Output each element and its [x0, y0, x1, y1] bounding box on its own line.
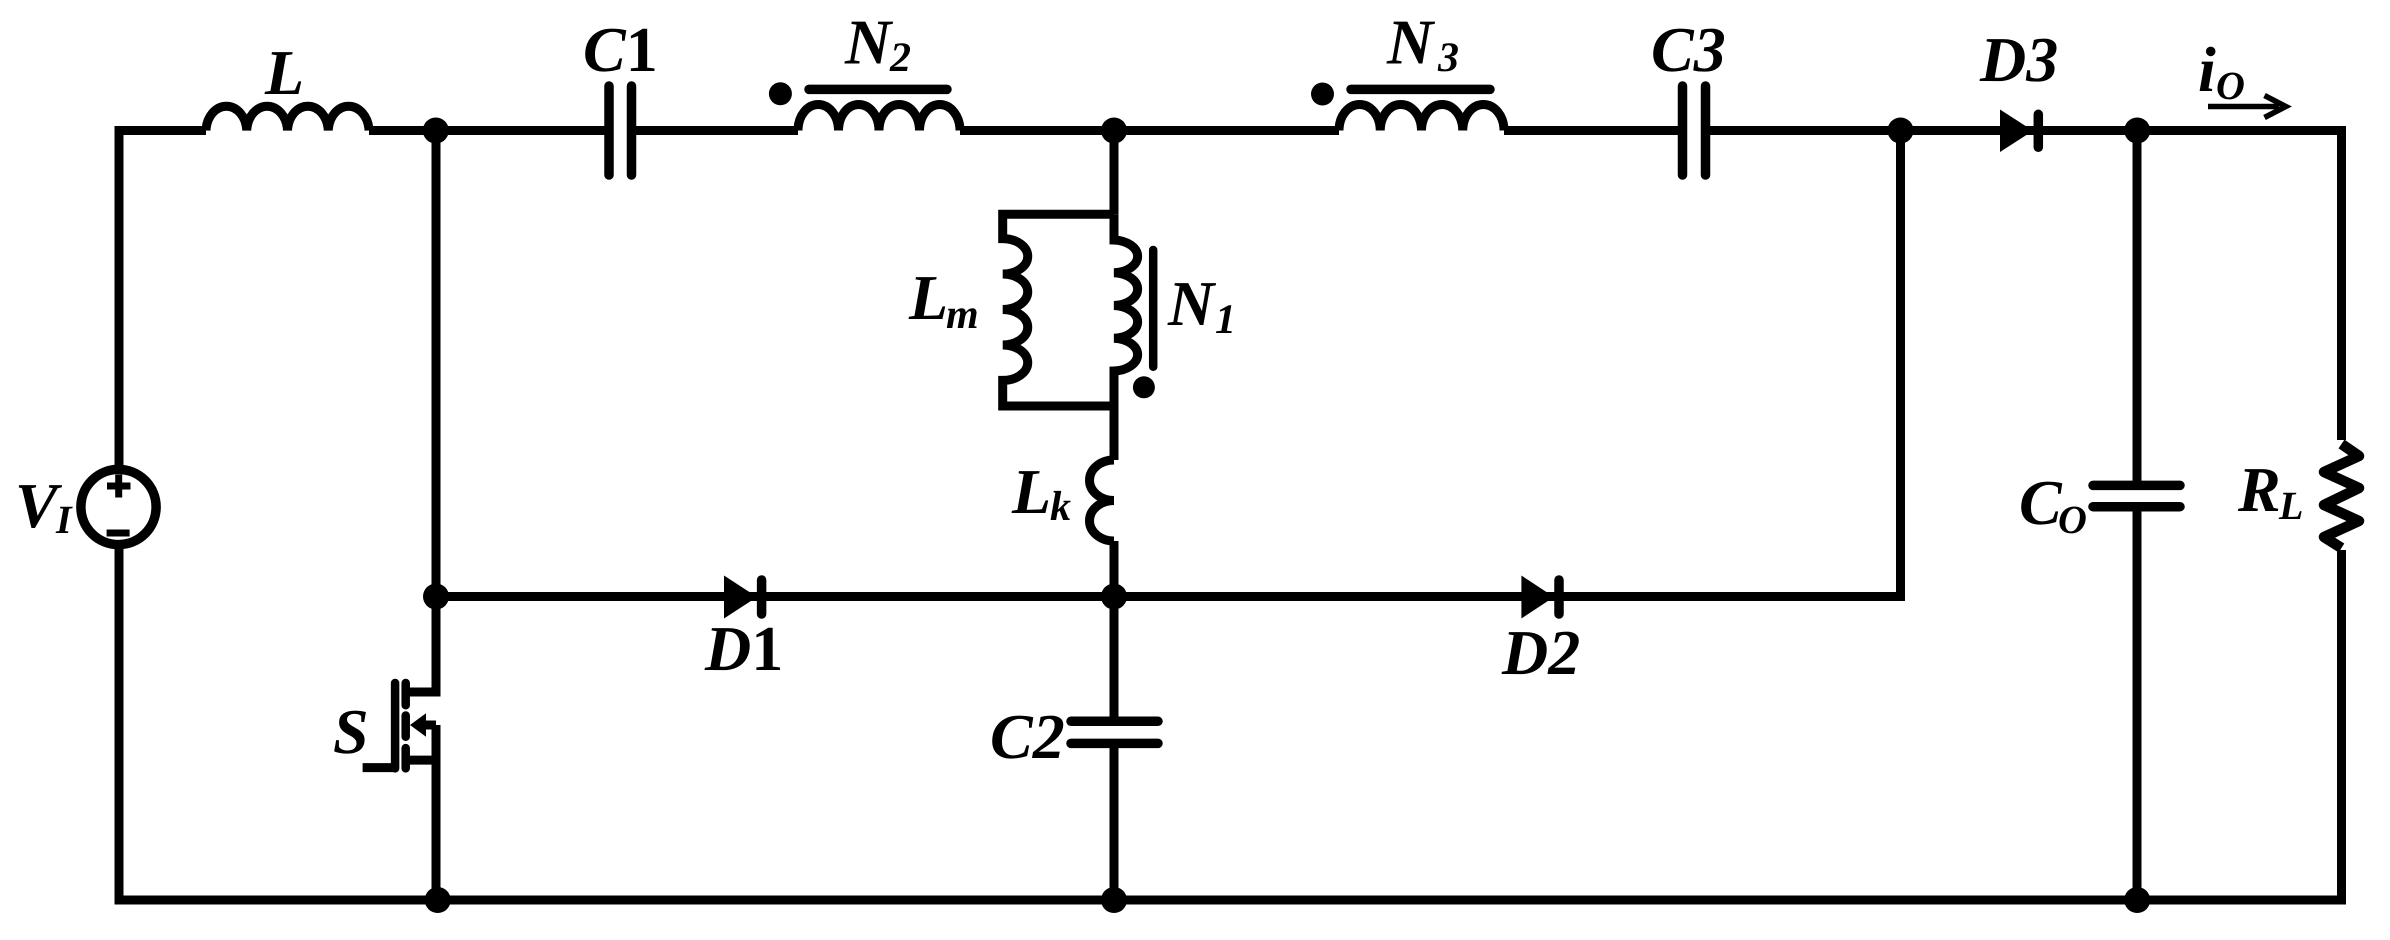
node F (S source / bottom): [425, 887, 451, 913]
transistor S body arrow: [410, 713, 426, 737]
winding N1: [1114, 214, 1138, 406]
wire output node down to CO: [2133, 131, 2142, 482]
wire middle rail (D1-D2 row) + riser up to node B: [436, 131, 1901, 597]
arrow iO: [2208, 96, 2286, 118]
wire CO to bottom rail: [2133, 511, 2142, 900]
svg-text:N: N: [1386, 7, 1436, 78]
N2 core bar: [809, 85, 947, 95]
svg-text:N: N: [1167, 268, 1217, 339]
transistor S source stub: [406, 756, 436, 765]
svg-text:I: I: [55, 497, 73, 542]
svg-text:C: C: [2019, 467, 2063, 538]
node C (output node): [2124, 118, 2150, 144]
capacitor CO: [2093, 485, 2180, 506]
node A (top center junction): [1101, 118, 1127, 144]
winding N2: [798, 105, 960, 131]
capacitor C3: [1683, 86, 1706, 175]
svg-text:L: L: [264, 37, 304, 108]
svg-text:D3: D3: [1979, 24, 2058, 95]
wire C2 to bottom rail: [1110, 748, 1119, 900]
wire top rail: N3 to C3: [1504, 126, 1678, 135]
wire vertical from node A1 down to switch: [432, 131, 441, 597]
svg-text:3: 3: [1437, 35, 1459, 81]
node E (Lk / C2 junction): [1101, 584, 1127, 610]
svg-text:D1: D1: [704, 613, 783, 684]
svg-text:C1: C1: [583, 14, 658, 85]
wire top rail: L to C1: [369, 126, 605, 135]
svg-text:L: L: [908, 262, 948, 333]
wire center vertical: node A to transformer: [1110, 131, 1119, 215]
svg-text:L: L: [2278, 483, 2303, 528]
svg-text:m: m: [946, 292, 979, 338]
VI plus: [107, 475, 131, 498]
transistor S gate bar: [391, 683, 400, 768]
svg-text:1: 1: [1215, 297, 1236, 343]
wire Lk to C2: [1110, 541, 1119, 717]
N2 polarity dot: [769, 82, 792, 105]
wire top rail: N2 to N3: [960, 126, 1339, 135]
svg-text:O: O: [2058, 497, 2087, 542]
wire transformer to Lk: [1110, 406, 1119, 460]
node B (C3 / D2 riser junction): [1888, 118, 1914, 144]
svg-text:C3: C3: [1651, 14, 1726, 85]
svg-text:N: N: [844, 7, 894, 78]
svg-text:D2: D2: [1501, 617, 1580, 688]
inductor Lm branch: [1003, 214, 1114, 406]
node G (C2 bottom): [1101, 887, 1127, 913]
svg-text:k: k: [1050, 484, 1071, 530]
capacitor C1: [609, 86, 632, 175]
diode D2: [1521, 576, 1554, 619]
VI minus: [107, 530, 130, 537]
svg-text:S: S: [333, 696, 369, 767]
inductor L: [206, 106, 369, 130]
svg-text:R: R: [2237, 454, 2281, 525]
node H (CO bottom): [2124, 887, 2150, 913]
node A1 (top of S branch): [423, 118, 449, 144]
resistor RL: [2324, 444, 2359, 548]
wire drain of S: [406, 597, 436, 693]
wire top rail: C1 to N2: [636, 126, 798, 135]
wire source of S to bottom rail: [432, 725, 441, 900]
inductor Lk: [1090, 460, 1115, 541]
svg-text:O: O: [2216, 63, 2245, 108]
source VI circle: [81, 469, 156, 544]
winding N3: [1339, 104, 1504, 130]
svg-text:i: i: [2198, 34, 2216, 105]
N1 polarity dot: [1133, 376, 1155, 398]
svg-text:C2: C2: [990, 701, 1065, 772]
wire left rail lower + bottom rail + right rail lower: [119, 545, 2342, 901]
diode D1: [724, 576, 757, 619]
svg-text:L: L: [1011, 456, 1051, 527]
transistor S gate lead: [363, 763, 395, 772]
N1 core bar: [1149, 250, 1158, 367]
N3 core bar: [1351, 85, 1490, 95]
N3 polarity dot: [1311, 83, 1334, 106]
node D (S drain / D1 junction): [423, 584, 449, 610]
wire input loop: left rail upper + top-left segment: [119, 131, 206, 470]
diode D3: [2000, 110, 2033, 153]
transistor S channel bars: [401, 683, 410, 768]
svg-text:2: 2: [889, 35, 911, 81]
wire top rail: C3 to D3, output corner + right rail upper: [1710, 131, 2342, 441]
capacitor C2: [1071, 721, 1158, 743]
